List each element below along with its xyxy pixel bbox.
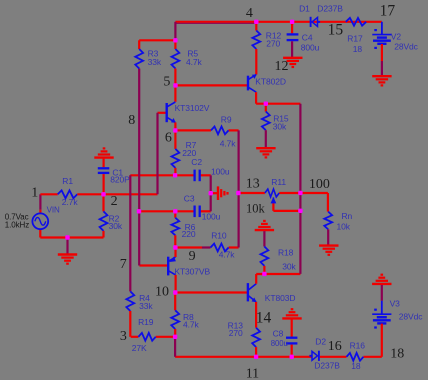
wire from corner 175,22 down to node at 175,40 [174,22,176,41]
svg-text:KT307VB: KT307VB [174,267,210,277]
svg-text:16: 16 [328,339,342,354]
wire input riser x=157.5 to KT3102V base [156,113,158,195]
svg-text:11: 11 [246,367,259,380]
wire node 9 to R10 left [175,246,202,248]
svg-text:C3: C3 [184,194,195,204]
wire bottom rail R16 to V3 corner [363,356,381,358]
wire ground stem under rail at 67.5 [66,238,68,255]
junction node 10 [173,290,177,294]
wire node 1 riser to VIN [39,194,41,209]
junction R7 bottom net7 [173,173,177,177]
resistor R10 horizontal [211,244,229,252]
svg-text:1: 1 [31,185,38,200]
ground above V3 inverted [372,283,391,285]
wire V3 bottom stem [381,324,383,357]
svg-text:100u: 100u [202,212,221,222]
wire node 6 to R9 left [175,129,211,131]
svg-text:15: 15 [328,22,344,39]
svg-text:C8: C8 [273,328,284,338]
svg-text:28Vdc: 28Vdc [394,42,418,52]
svg-text:R19: R19 [138,317,154,327]
svg-text:8: 8 [128,113,135,128]
svg-text:R9: R9 [221,115,232,125]
wire R11 wiper down-right to node 100 vertical [272,203,274,211]
svg-text:R16: R16 [350,341,366,351]
junction at 175,40 [173,38,177,42]
svg-text:270: 270 [229,328,243,338]
svg-text:D237B: D237B [314,360,340,370]
junction R6 top [173,209,177,213]
wire R11 left lead from node 13 [238,192,265,194]
wire C3 right lead to corner [201,210,211,212]
svg-text:18: 18 [390,347,404,362]
wire V2 to ground [381,44,383,61]
svg-text:5: 5 [163,75,170,90]
battery V3 [372,313,391,315]
resistor R6 vertical [174,211,176,217]
wire VIN bottom rail y=237.5 [40,236,103,238]
capacitor C3 plates [193,206,195,218]
junction VIN ground [65,235,69,239]
source VIN circle [32,213,48,229]
wire x=175 down to bottom rail [174,337,176,357]
svg-text:30k: 30k [282,262,296,272]
svg-text:30k: 30k [273,122,287,132]
potentiometer R11 body [265,189,279,197]
wire C8 lower stem [291,345,293,357]
wire KT803D collector up to node [255,274,257,284]
ground above R18 inverted [255,229,274,231]
diode D1 D237B [310,17,312,27]
junction R18 bottom output [262,272,266,276]
wire KT307VB base from net8 corner [139,264,167,266]
junction C8 bottom rail [290,355,294,359]
svg-text:4.7k: 4.7k [186,57,203,67]
svg-text:C4: C4 [302,33,313,43]
wire KT3102V base stub [158,112,167,114]
wire KT802D emitter-bottom horizontal y=103.7 [256,103,300,105]
transistor Q3 KT307VB pnp [167,257,169,276]
resistor R16 horizontal [347,353,364,361]
svg-text:220: 220 [182,229,196,239]
wire bottom rail y=356.8 left part [175,356,312,358]
ground under VIN rail [58,253,77,255]
svg-text:KT802D: KT802D [255,77,286,87]
wire C2 right lead to corner [201,174,211,176]
svg-text:13: 13 [246,177,260,192]
wire KT803D emitter down [255,302,257,328]
svg-text:6: 6 [165,130,172,145]
svg-text:3: 3 [120,329,127,344]
svg-text:100: 100 [309,177,330,192]
wire net7 horizontal y=175.3 to C2 [130,174,193,176]
wire node 5 horizontal to KT802D base [176,84,248,86]
wire top supply rail node 4 y=22 [175,21,381,23]
wire KT803D collector net y=274 [256,273,300,275]
wire output vertical x=300.4 [299,104,301,274]
svg-text:18: 18 [351,361,361,371]
svg-text:VIN: VIN [47,205,60,214]
junction R15 top [264,102,268,106]
junction node 5 [173,83,177,87]
resistor R15 vertical upper 30k [265,104,267,112]
wire R9 right lead [229,129,239,131]
wire node 10 to KT803D base [175,291,247,293]
svg-text:28Vdc: 28Vdc [399,312,423,322]
wire V3 upper stem [381,285,383,301]
junction A C2 C3 ground [209,191,213,195]
wire KT802D collector down [255,92,257,104]
svg-text:V3: V3 [390,299,401,309]
junction node 13 [236,191,240,195]
svg-text:R18: R18 [278,248,294,258]
svg-text:Rn: Rn [342,211,353,221]
svg-text:33k: 33k [148,57,162,67]
svg-text:R11: R11 [271,177,286,187]
wire KT307VB emitter up to node 9 [174,248,176,258]
wire vertical x=238.6 R9 to R10 [238,130,240,247]
svg-text:KT3102V: KT3102V [175,103,210,113]
svg-text:KT803D: KT803D [265,293,296,303]
junction node 100 upper [298,191,302,195]
transistor Q1 KT3102V [165,103,167,122]
wire y=40 between R3 top and R5 top [139,39,175,41]
ground under C4 [283,57,302,59]
svg-text:17: 17 [380,3,396,20]
resistor Rn vertical [327,193,329,212]
svg-text:9: 9 [189,249,196,264]
junction node 2 [101,192,105,196]
junction node 9 [173,245,177,249]
wire long vertical net7 x=130.3 [129,175,131,291]
svg-text:10k: 10k [337,222,351,232]
svg-text:D237B: D237B [317,4,343,14]
wire KT3102V emitter to node 6 [174,122,176,130]
wire KT307VB collector down [175,275,177,293]
svg-text:R17: R17 [347,34,363,44]
junction C4 top [290,20,294,24]
svg-text:820P: 820P [110,175,130,185]
wire node 100 to Rn corner [300,192,328,194]
resistor R18 vertical lower 30k [263,231,265,246]
svg-text:800u: 800u [271,339,288,348]
svg-text:2: 2 [111,194,118,209]
svg-text:14: 14 [256,310,272,327]
wire R10 right lead to corner up [229,246,239,248]
resistor R7 vertical [174,130,176,149]
transistor Q2 KT802D emitter-up [247,76,249,91]
potentiometer R11 wiper arrow [272,198,274,204]
svg-text:100u: 100u [211,167,230,177]
svg-text:R1: R1 [62,176,73,186]
svg-text:10: 10 [155,284,169,299]
junction wiper to output [298,209,302,213]
svg-text:27K: 27K [132,343,147,353]
svg-text:12: 12 [275,59,289,74]
wire VIN bottom stub [39,229,41,237]
junction net8 to C3 [137,209,141,213]
svg-text:4.7k: 4.7k [220,138,237,148]
svg-text:30k: 30k [109,221,123,231]
capacitor C2 plates [193,170,195,182]
diode D2 D237B [318,351,320,361]
svg-text:4.7k: 4.7k [219,250,236,260]
wire C1 bottom lead to node 2 [102,174,104,194]
ground under Rn [319,244,338,246]
wire long vertical net8 x=139.2 below R3 [138,69,140,266]
battery V2 [381,22,383,34]
wire C4 to ground [291,41,293,57]
resistor R5 vertical [174,40,176,49]
wire bottom rail between D2 and R16 [320,356,347,358]
wire C3 corner up to junction A [210,193,212,211]
svg-text:10k: 10k [246,202,266,216]
transistor Q4 KT803D [247,283,249,301]
svg-text:2.7k: 2.7k [62,197,79,207]
wire C1 ground stem [102,159,104,168]
resistor R1 horizontal [40,193,57,195]
svg-text:C2: C2 [191,157,202,167]
junction R13 bottom rail [254,355,258,359]
capacitor C8 plates [286,337,297,339]
resistor R13 vertical [252,328,260,347]
wire node 2 horizontal y=194.3 [104,193,158,195]
resistor R8 vertical [174,293,176,311]
svg-text:18: 18 [353,44,363,54]
resistor R4 vertical [126,291,134,311]
svg-text:R10: R10 [211,230,227,240]
svg-text:1.0kHz: 1.0kHz [5,220,29,229]
svg-text:33k: 33k [139,301,153,311]
svg-text:D1: D1 [299,4,310,14]
ground above C8 inverted [282,317,301,319]
wire R11 right lead to node 100 vertical [279,192,300,194]
capacitor C1 vertical with top ground [94,156,113,158]
ground under V2 [372,75,391,77]
junction R19 R8 node [173,335,177,339]
resistor R9 horizontal [211,127,229,135]
svg-text:4.7k: 4.7k [183,319,200,329]
svg-text:D2: D2 [315,336,326,346]
ground under R15 [256,147,275,149]
wire R19 right to node at 175,336.8 [156,336,175,338]
svg-text:270: 270 [266,39,280,49]
svg-text:4: 4 [246,6,253,21]
capacitor C1 plates [98,167,110,169]
wire net8 y=211.3 to C3 [139,210,194,212]
resistor R2 vertical [102,194,104,211]
svg-text:V2: V2 [391,32,402,42]
resistor R19 horizontal [138,333,155,341]
ground sideways at junction A [212,192,218,194]
resistor R12 vertical [255,22,257,31]
wire C8 upper stem [291,319,293,336]
capacitor C4 with stem [291,22,293,34]
wire node 3 to R19 left [131,336,139,338]
resistor R17 horizontal [346,18,366,26]
junction node 6 [173,128,177,132]
resistor R3 vertical [138,40,140,49]
svg-text:7: 7 [120,257,127,272]
junction node 4 [254,20,258,24]
svg-text:800u: 800u [301,43,320,53]
wire C2 corner down to junction A [210,175,212,193]
